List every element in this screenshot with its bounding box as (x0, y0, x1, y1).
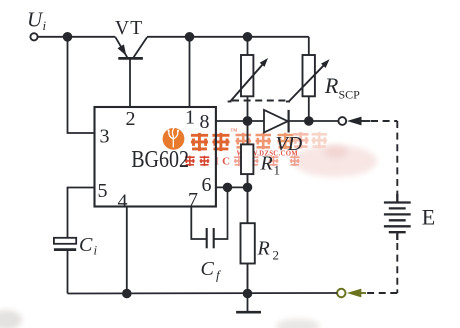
node: C_f riser (224, 184, 232, 192)
resistor R1 (241, 121, 253, 187)
arrow into bottom terminal (olive) (347, 289, 366, 298)
ground symbol (236, 294, 261, 313)
svg-text:i: i (43, 18, 47, 33)
input terminal Ui (30, 33, 37, 40)
svg-text:BG602: BG602 (131, 146, 189, 173)
svg-text:C: C (201, 258, 215, 280)
battery E (384, 194, 411, 240)
rheostat right R_SCP (286, 55, 330, 102)
node: R1 bottom / R2 top (244, 184, 252, 192)
wire: input to transistor emitter (38, 36, 116, 38)
wire: pin 6 to R1 bottom (216, 186, 248, 188)
wire: base to pin 2 (129, 58, 131, 107)
svg-text:3: 3 (100, 126, 110, 148)
svg-text:5: 5 (98, 180, 108, 202)
svg-text:1: 1 (274, 163, 281, 178)
wire: pin 5 to C_i (68, 188, 95, 238)
capacitor C_i (54, 238, 76, 294)
svg-text:R: R (260, 153, 273, 175)
svg-text:2: 2 (126, 108, 136, 130)
node: pin 4 on rail (123, 290, 131, 298)
node: pin-1 junction (186, 33, 194, 41)
svg-text:U: U (27, 8, 44, 32)
svg-text:C: C (79, 234, 93, 256)
watermark smudge bottom-mid (276, 319, 320, 328)
svg-text:SCP: SCP (339, 87, 361, 101)
capacitor C_f (207, 187, 228, 248)
watermark corner smudge bottom-left (0, 310, 22, 328)
wire: pin 8 to diode anode node (216, 120, 248, 122)
svg-text:TM: TM (231, 128, 238, 133)
watermark text dianzishichangwang (light salmon) (236, 133, 272, 150)
svg-text:4: 4 (118, 191, 128, 213)
watermark bottom row caigouwangzhan (234, 156, 299, 166)
node: left rheostat junction (244, 33, 252, 41)
svg-text:7: 7 (188, 189, 198, 211)
wire: collector to rheostat corner (147, 36, 309, 38)
svg-text:f: f (216, 267, 222, 282)
svg-text:IC: IC (215, 156, 234, 168)
watermark logo circle (163, 127, 185, 150)
svg-text:VD: VD (276, 133, 303, 155)
node: pin-3 branch junction (64, 33, 72, 41)
watermark text WeiKu (bold dark) (191, 133, 230, 151)
watermark pale blob right (293, 145, 377, 177)
IC U1 BG602 outline (95, 107, 216, 207)
ground rail wire (68, 292, 338, 295)
wire: left rheostat down to diode node (247, 96, 249, 121)
wire: junction down and right to pin 3 (68, 37, 95, 133)
watermark bottom row zui da (185, 156, 209, 166)
wire: pin 4 down to ground rail (126, 207, 128, 294)
svg-text:R: R (324, 73, 339, 98)
arrow into top terminal (347, 117, 371, 126)
svg-text:2: 2 (273, 248, 280, 263)
wire: right rheostat down to cathode node (308, 96, 310, 121)
resistor R2 (241, 187, 255, 293)
node: ground tap (244, 290, 252, 298)
output terminal top (338, 117, 346, 125)
node: cathode / right rheostat (305, 117, 313, 125)
wire: down to left rheostat (247, 37, 249, 55)
svg-text:8: 8 (200, 111, 210, 133)
wire: junction down to pin 1 (189, 37, 191, 107)
rheostat left (ganged with R_SCP) (228, 55, 268, 102)
svg-text:VT: VT (115, 18, 143, 39)
dashed wire: top right to battery (371, 120, 397, 122)
transistor VT (116, 37, 148, 58)
svg-text:6: 6 (202, 174, 212, 196)
diode VD (248, 110, 339, 133)
output terminal bottom (olive) (337, 289, 345, 297)
dashed wire: battery to bottom terminal (396, 243, 398, 293)
node: diode anode (244, 117, 252, 125)
svg-text:1: 1 (185, 107, 195, 129)
dashed mechanical coupling line (232, 100, 287, 102)
wire: corner down to right rheostat (308, 37, 310, 55)
svg-text:i: i (94, 243, 98, 258)
wire: pin 7 down (191, 207, 206, 240)
svg-text:R: R (257, 238, 270, 260)
svg-text:E: E (422, 205, 435, 230)
